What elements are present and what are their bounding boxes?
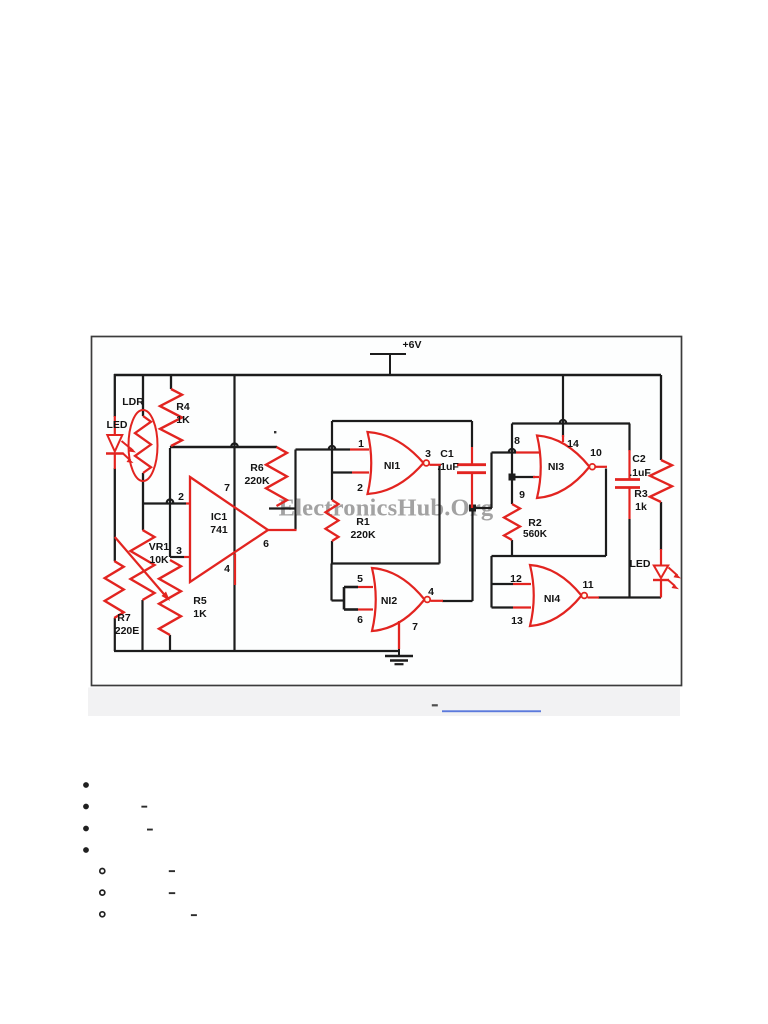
svg-text:1K: 1K [176,414,190,426]
svg-text:R6: R6 [250,462,264,474]
svg-text:7: 7 [412,621,418,633]
svg-text:C1: C1 [440,448,454,460]
svg-text:.1uF: .1uF [437,461,459,473]
svg-text:220E: 220E [115,625,140,637]
svg-text:10K: 10K [149,554,169,566]
svg-text:R1: R1 [356,516,370,528]
svg-text:R7: R7 [117,612,131,624]
svg-text:10: 10 [590,447,602,459]
svg-text:3: 3 [425,448,431,460]
svg-text:NI4: NI4 [544,593,561,605]
svg-text:12: 12 [510,573,522,585]
svg-text:ElectronicsHub.Org: ElectronicsHub.Org [279,495,494,522]
svg-text:741: 741 [210,524,228,536]
svg-text:NI1: NI1 [384,460,401,472]
svg-text:5: 5 [357,573,363,585]
svg-text:560K: 560K [523,529,548,540]
svg-text:220K: 220K [350,529,376,541]
svg-text:NI3: NI3 [548,461,565,473]
svg-text:1k: 1k [635,501,647,513]
svg-text:VR1: VR1 [149,541,170,553]
svg-text:2: 2 [357,482,363,494]
svg-text:LED: LED [107,419,128,431]
svg-text:R2: R2 [528,517,542,529]
svg-text:R5: R5 [193,595,207,607]
svg-text:8: 8 [514,435,520,447]
svg-text:6: 6 [357,614,363,626]
svg-text:R4: R4 [176,401,190,413]
svg-text:9: 9 [519,489,525,501]
svg-text:11: 11 [582,579,593,591]
svg-text:4: 4 [428,586,434,598]
svg-text:14: 14 [567,438,579,450]
svg-text:LDR: LDR [122,396,144,408]
svg-text:4: 4 [224,563,230,575]
svg-text:7: 7 [224,482,230,494]
svg-text:1K: 1K [193,608,207,620]
svg-text:220K: 220K [244,475,270,487]
svg-text:NI2: NI2 [381,595,398,607]
svg-text:LED: LED [630,558,651,570]
svg-text:6: 6 [263,538,269,550]
svg-text:IC1: IC1 [211,511,228,523]
svg-text:.1uF: .1uF [629,467,651,479]
svg-text:3: 3 [176,545,182,557]
svg-text:2: 2 [178,491,184,503]
svg-text:+6V: +6V [403,339,422,351]
svg-text:C2: C2 [632,453,646,465]
svg-text:1: 1 [358,438,364,450]
svg-text:R3: R3 [634,488,648,500]
svg-text:13: 13 [511,615,523,627]
